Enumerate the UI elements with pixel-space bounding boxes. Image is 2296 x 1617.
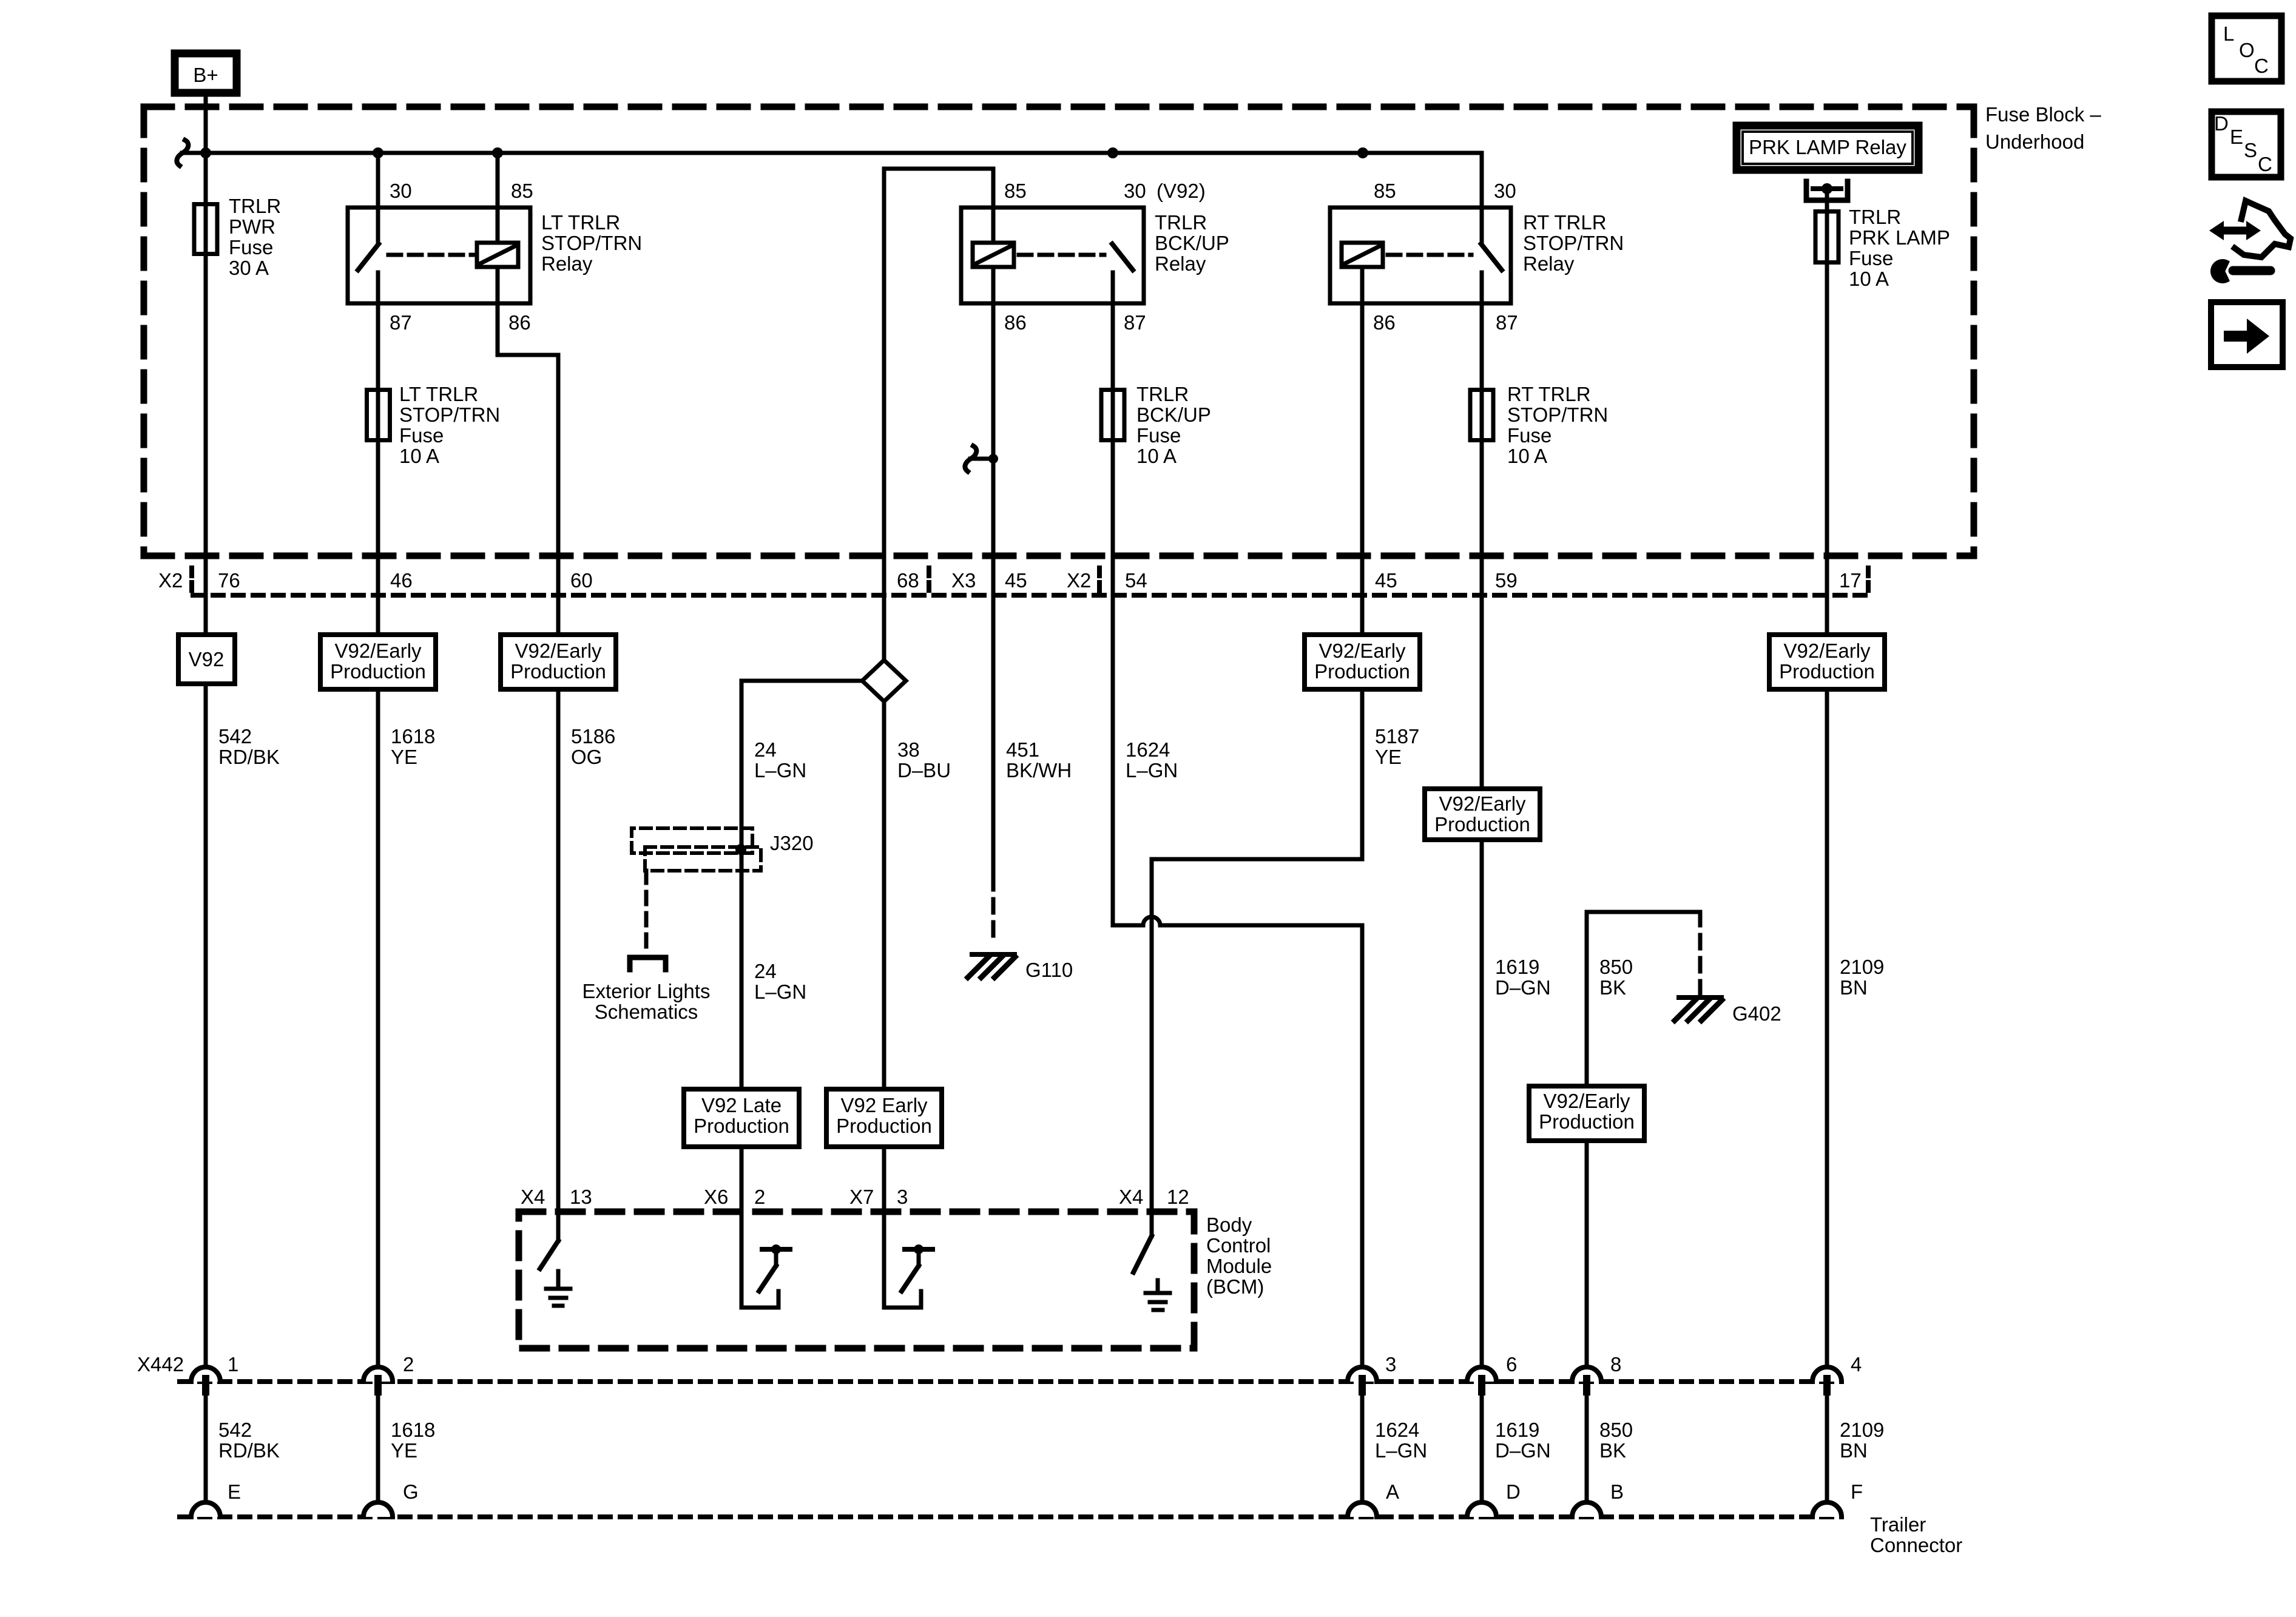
svg-text:D–GN: D–GN bbox=[1495, 1439, 1551, 1462]
svg-text:Production: Production bbox=[1779, 660, 1875, 683]
svg-text:1619: 1619 bbox=[1495, 1419, 1539, 1441]
svg-text:Production: Production bbox=[836, 1115, 932, 1137]
terminal X442-4 bbox=[1823, 1375, 1831, 1396]
svg-text:24: 24 bbox=[754, 960, 777, 982]
svg-text:1619: 1619 bbox=[1495, 956, 1539, 978]
svg-text:850: 850 bbox=[1599, 956, 1633, 978]
svg-text:TRLR: TRLR bbox=[1136, 383, 1189, 405]
svg-text:54: 54 bbox=[1125, 569, 1147, 592]
svg-text:D–BU: D–BU bbox=[897, 759, 951, 781]
svg-text:Body: Body bbox=[1206, 1214, 1252, 1236]
BCM ground X4-12 bbox=[1146, 1280, 1170, 1310]
wire 24 L-GN branch from splice to BCM X6-2 bbox=[741, 681, 862, 1308]
icon arrow box bbox=[2211, 302, 2283, 367]
wire relay3 pin87 down through RT TRLR fuse to trailer pin 6 bbox=[1480, 272, 1484, 1367]
svg-text:L–GN: L–GN bbox=[1375, 1439, 1427, 1462]
svg-text:TRLR: TRLR bbox=[229, 195, 281, 217]
svg-text:Fuse: Fuse bbox=[229, 236, 273, 258]
svg-text:8: 8 bbox=[1610, 1353, 1621, 1376]
svg-text:6: 6 bbox=[1506, 1353, 1517, 1376]
svg-text:C: C bbox=[2254, 55, 2269, 77]
svg-text:RT TRLR: RT TRLR bbox=[1507, 383, 1591, 405]
svg-text:Production: Production bbox=[694, 1115, 789, 1137]
relay K2 coil link dashed bbox=[1019, 253, 1104, 257]
BCM dashed box bbox=[519, 1212, 1194, 1348]
svg-text:85: 85 bbox=[1374, 180, 1396, 202]
svg-text:X442: X442 bbox=[137, 1353, 184, 1376]
connector arc X442-2 bbox=[363, 1367, 393, 1382]
svg-text:86: 86 bbox=[1373, 311, 1396, 334]
svg-text:D–GN: D–GN bbox=[1495, 976, 1551, 999]
relay K2 coil feed stub bbox=[991, 208, 996, 243]
BCM switch X6-2 bbox=[741, 1291, 778, 1308]
dashed wire 850 BK to G402 bbox=[1698, 912, 1703, 998]
svg-text:1618: 1618 bbox=[391, 725, 435, 748]
svg-text:Relay: Relay bbox=[541, 252, 593, 275]
fuse LT TRLR STOP/TRN 10A bbox=[367, 390, 390, 441]
node dot take-out on 451 BK/WH bbox=[988, 454, 998, 464]
connector separator right end bbox=[1866, 568, 1871, 597]
svg-text:L–GN: L–GN bbox=[754, 981, 806, 1003]
svg-text:LT TRLR: LT TRLR bbox=[541, 211, 620, 234]
option box V92 Early Production bbox=[826, 1089, 942, 1147]
svg-text:10 A: 10 A bbox=[399, 445, 439, 467]
fuse TRLR PRK LAMP 10A bbox=[1815, 212, 1838, 263]
svg-text:S: S bbox=[2244, 139, 2257, 161]
dashed wire 451 BK/WH to G110 bbox=[991, 876, 996, 937]
wire 1624 L-GN jog right with hop over 5187 bbox=[1113, 917, 1362, 1367]
wire relay3 pin30 from bus bbox=[1480, 153, 1484, 243]
option box V92/Early Production (5186 OG) bbox=[501, 635, 616, 689]
svg-text:TRLR: TRLR bbox=[1849, 206, 1901, 228]
svg-text:B+: B+ bbox=[193, 64, 218, 86]
svg-text:(V92): (V92) bbox=[1156, 180, 1206, 202]
svg-text:Trailer: Trailer bbox=[1870, 1513, 1926, 1536]
svg-text:STOP/TRN: STOP/TRN bbox=[399, 403, 500, 426]
fuse TRLR PWR 30A bbox=[194, 204, 217, 254]
wire 5186 OG column to BCM X4-13 bbox=[556, 355, 561, 1241]
svg-text:10 A: 10 A bbox=[1136, 445, 1177, 467]
svg-text:87: 87 bbox=[1124, 311, 1146, 334]
connector arc X442-6 bbox=[1467, 1367, 1496, 1382]
svg-text:RD/BK: RD/BK bbox=[218, 746, 280, 768]
svg-text:3: 3 bbox=[897, 1186, 908, 1208]
svg-text:3: 3 bbox=[1385, 1353, 1396, 1376]
bus wire B+ horizontal bbox=[182, 151, 1482, 155]
svg-text:Relay: Relay bbox=[1523, 252, 1575, 275]
trailer connector arc E bbox=[191, 1502, 220, 1517]
svg-text:J320: J320 bbox=[770, 832, 814, 854]
svg-text:Production: Production bbox=[510, 660, 606, 683]
svg-text:4: 4 bbox=[1851, 1353, 1862, 1376]
take-out stub on 451 BK/WH bbox=[970, 457, 993, 461]
svg-text:BN: BN bbox=[1840, 1439, 1868, 1462]
off-page fork exterior lights bbox=[630, 957, 666, 970]
relay K1 LT TRLR STOP/TRN box bbox=[348, 208, 530, 303]
wire TRLR PRK LAMP fuse feed bbox=[1825, 191, 1829, 1367]
svg-text:5187: 5187 bbox=[1375, 725, 1419, 748]
icon LOC box bbox=[2212, 16, 2281, 81]
node dot bus/relay1 pin85 bbox=[492, 147, 503, 158]
wire relay2 pin87 down through TRLR BCK/UP fuse to connector 54 bbox=[1111, 272, 1115, 925]
svg-text:V92/Early: V92/Early bbox=[1783, 640, 1871, 662]
terminal X442-6 bbox=[1478, 1375, 1485, 1396]
svg-text:B: B bbox=[1610, 1480, 1624, 1503]
connector separator X3 bbox=[927, 568, 931, 597]
svg-text:G: G bbox=[403, 1480, 419, 1503]
wire 5187 YE jog left to BCM X4-12 bbox=[1152, 859, 1362, 1236]
svg-text:Control: Control bbox=[1206, 1234, 1271, 1257]
option box V92 bbox=[178, 635, 235, 684]
svg-text:1618: 1618 bbox=[391, 1419, 435, 1441]
svg-text:BK/WH: BK/WH bbox=[1006, 759, 1072, 781]
BCM ground X4-13 bbox=[546, 1271, 570, 1306]
svg-text:X2: X2 bbox=[1067, 569, 1091, 592]
squiggle at bus start bbox=[177, 140, 188, 166]
relay K1 switch arm bbox=[358, 244, 379, 270]
connector arc X442-8 bbox=[1572, 1367, 1601, 1382]
option box V92/Early Production (1618 YE) bbox=[320, 635, 436, 689]
relay K3 switch arm bbox=[1481, 244, 1502, 270]
option box V92/Early Production (1619 D-GN) bbox=[1425, 789, 1540, 840]
wire 850 BK to trailer B bbox=[1585, 1396, 1589, 1504]
svg-text:X4: X4 bbox=[521, 1186, 545, 1208]
trailer connector arc D bbox=[1467, 1502, 1496, 1517]
fuse block - underhood dashed border bbox=[144, 107, 1974, 556]
svg-text:1: 1 bbox=[228, 1353, 238, 1376]
svg-text:2: 2 bbox=[754, 1186, 765, 1208]
svg-text:LT TRLR: LT TRLR bbox=[399, 383, 478, 405]
svg-text:86: 86 bbox=[508, 311, 531, 334]
terminal X442-8 bbox=[1583, 1375, 1590, 1396]
trailer connector arc A bbox=[1348, 1502, 1377, 1517]
relay K2 switch arm bbox=[1112, 244, 1133, 270]
svg-text:Schematics: Schematics bbox=[595, 1001, 698, 1023]
svg-text:V92/Early: V92/Early bbox=[1319, 640, 1406, 662]
svg-text:30: 30 bbox=[1124, 180, 1146, 202]
svg-text:PRK LAMP Relay: PRK LAMP Relay bbox=[1749, 136, 1906, 158]
wire relay1 pin87 down through LT TRLR fuse to connector 46 and X442-2 bbox=[376, 272, 380, 1367]
svg-text:Module: Module bbox=[1206, 1255, 1272, 1277]
svg-text:Underhood: Underhood bbox=[1985, 130, 2084, 153]
svg-text:Production: Production bbox=[330, 660, 426, 683]
BCM switch X7-3 bbox=[884, 1291, 921, 1308]
svg-text:Connector: Connector bbox=[1870, 1534, 1962, 1556]
svg-text:30 A: 30 A bbox=[229, 257, 269, 279]
icon DESC box bbox=[2212, 112, 2281, 177]
svg-text:V92 Early: V92 Early bbox=[840, 1094, 928, 1116]
svg-text:Relay: Relay bbox=[1155, 252, 1206, 275]
wire 850 BK column to trailer pin 8 bbox=[1587, 912, 1700, 1367]
svg-text:Fuse: Fuse bbox=[1849, 247, 1893, 269]
svg-text:V92/Early: V92/Early bbox=[1439, 792, 1526, 815]
relay K1 coil bbox=[477, 243, 518, 267]
svg-text:BK: BK bbox=[1599, 1439, 1626, 1462]
svg-text:60: 60 bbox=[570, 569, 593, 592]
svg-text:Fuse Block –: Fuse Block – bbox=[1985, 103, 2101, 126]
dashed wire J320 to exterior lights bbox=[644, 871, 649, 953]
svg-text:V92/Early: V92/Early bbox=[1543, 1090, 1630, 1112]
terminal X442-3 bbox=[1359, 1375, 1366, 1396]
svg-text:C: C bbox=[2258, 153, 2272, 175]
svg-text:451: 451 bbox=[1006, 738, 1039, 761]
svg-text:OG: OG bbox=[571, 746, 602, 768]
junction block J320 dashed boxes bbox=[632, 828, 752, 853]
wire 38 D-BU column above splice to relay2 pin85 bridge bbox=[884, 169, 993, 660]
svg-text:85: 85 bbox=[1004, 180, 1027, 202]
svg-text:G402: G402 bbox=[1732, 1002, 1781, 1025]
svg-text:E: E bbox=[228, 1480, 241, 1503]
svg-text:(BCM): (BCM) bbox=[1206, 1275, 1264, 1298]
wire 1618 YE to trailer G bbox=[376, 1396, 380, 1504]
wire 1624 L-GN to trailer A bbox=[1360, 1396, 1365, 1504]
svg-text:24: 24 bbox=[754, 738, 777, 761]
trailer connector dotted line bbox=[180, 1514, 1842, 1519]
svg-text:L–GN: L–GN bbox=[1126, 759, 1178, 781]
svg-text:86: 86 bbox=[1004, 311, 1027, 334]
svg-text:Production: Production bbox=[1539, 1110, 1635, 1133]
wire 38 D-BU column below splice to BCM X7-3 bbox=[882, 701, 886, 1308]
svg-text:5186: 5186 bbox=[571, 725, 615, 748]
svg-text:87: 87 bbox=[390, 311, 412, 334]
svg-text:12: 12 bbox=[1167, 1186, 1189, 1208]
svg-text:45: 45 bbox=[1375, 569, 1397, 592]
svg-text:PRK LAMP: PRK LAMP bbox=[1849, 226, 1950, 249]
svg-text:V92/Early: V92/Early bbox=[515, 640, 602, 662]
svg-text:BN: BN bbox=[1840, 976, 1868, 999]
option box V92/Early Production (5187 YE) bbox=[1305, 635, 1420, 689]
svg-text:G110: G110 bbox=[1025, 959, 1073, 981]
svg-text:68: 68 bbox=[897, 569, 919, 592]
svg-text:X6: X6 bbox=[704, 1186, 728, 1208]
relay K2 coil bbox=[973, 243, 1014, 267]
svg-text:YE: YE bbox=[1375, 746, 1402, 768]
svg-text:850: 850 bbox=[1599, 1419, 1633, 1441]
svg-text:542: 542 bbox=[218, 725, 252, 748]
svg-text:30: 30 bbox=[1494, 180, 1516, 202]
svg-text:Production: Production bbox=[1434, 813, 1530, 836]
svg-text:BCK/UP: BCK/UP bbox=[1136, 403, 1211, 426]
svg-text:Fuse: Fuse bbox=[399, 424, 444, 447]
squiggle at take-out bbox=[965, 446, 976, 471]
connector separator X2 left bbox=[189, 568, 194, 597]
svg-text:Fuse: Fuse bbox=[1507, 424, 1551, 447]
icon wrench and arrow bbox=[2219, 227, 2251, 235]
svg-text:D: D bbox=[2214, 112, 2229, 135]
connector arc X442-3 bbox=[1348, 1367, 1377, 1382]
connector arc X442-1 bbox=[191, 1367, 220, 1382]
node dot bus/relay2 pin30 bbox=[1107, 147, 1118, 158]
wire 542 RD/BK to trailer E bbox=[204, 1396, 208, 1504]
svg-text:E: E bbox=[2230, 126, 2243, 148]
svg-text:RD/BK: RD/BK bbox=[218, 1439, 280, 1462]
trailer connector arc F bbox=[1812, 1502, 1842, 1517]
svg-text:X3: X3 bbox=[951, 569, 976, 592]
svg-text:87: 87 bbox=[1496, 311, 1518, 334]
svg-text:F: F bbox=[1851, 1480, 1863, 1503]
wire 2109 BN to trailer F bbox=[1825, 1396, 1829, 1504]
relay K2 TRLR BCK/UP box bbox=[961, 208, 1144, 303]
relay K1 coil link dashed bbox=[388, 253, 477, 257]
svg-text:V92: V92 bbox=[189, 648, 225, 670]
relay K3 RT TRLR STOP/TRN box bbox=[1330, 208, 1511, 303]
svg-text:V92/Early: V92/Early bbox=[334, 640, 422, 662]
B+ feed wire bbox=[204, 96, 208, 1367]
svg-text:STOP/TRN: STOP/TRN bbox=[541, 232, 642, 254]
fuse RT TRLR STOP/TRN 10A bbox=[1470, 390, 1493, 441]
svg-text:17: 17 bbox=[1839, 569, 1862, 592]
svg-text:YE: YE bbox=[391, 746, 417, 768]
svg-text:BCK/UP: BCK/UP bbox=[1155, 232, 1229, 254]
connector row dotted line (fuse block outputs) bbox=[193, 593, 1868, 598]
option box V92/Early Production (2109 BN) bbox=[1769, 635, 1885, 689]
trailer harness connector X442 dotted line bbox=[180, 1379, 1842, 1384]
svg-text:STOP/TRN: STOP/TRN bbox=[1507, 403, 1608, 426]
svg-text:TRLR: TRLR bbox=[1155, 211, 1207, 234]
trailer connector arc B bbox=[1572, 1502, 1601, 1517]
svg-text:X7: X7 bbox=[849, 1186, 874, 1208]
svg-text:59: 59 bbox=[1495, 569, 1518, 592]
wire relay3 pin86 down 5187 YE bbox=[1360, 267, 1365, 859]
ground G402 bbox=[1679, 995, 1721, 1000]
relay K3 coil link dashed bbox=[1388, 253, 1471, 257]
svg-text:542: 542 bbox=[218, 1419, 252, 1441]
svg-text:45: 45 bbox=[1005, 569, 1027, 592]
option box V92/Early Production (850 BK) bbox=[1529, 1086, 1644, 1141]
node dot bus/relay3 pin85 bbox=[1357, 147, 1368, 158]
svg-text:10 A: 10 A bbox=[1849, 268, 1889, 290]
PRK LAMP relay terminal bracket bbox=[1806, 181, 1848, 200]
BCM switch X4-13 arm bbox=[540, 1241, 558, 1269]
ground G110 bbox=[972, 952, 1015, 957]
svg-text:Exterior Lights: Exterior Lights bbox=[582, 980, 711, 1002]
svg-text:PWR: PWR bbox=[229, 215, 275, 238]
B+ terminal box bbox=[175, 53, 237, 93]
svg-text:38: 38 bbox=[897, 738, 920, 761]
BCM switch X4-12 arm bbox=[1133, 1236, 1152, 1272]
node dot bus/B+ bbox=[200, 147, 211, 158]
wire relay1 pin85 from bus bbox=[496, 153, 500, 243]
svg-text:A: A bbox=[1386, 1480, 1399, 1503]
node dot PRK LAMP relay output bbox=[1822, 183, 1832, 194]
PRK LAMP Relay label box bbox=[1737, 126, 1919, 170]
wire 1619 D-GN to trailer D bbox=[1480, 1396, 1484, 1504]
svg-text:Fuse: Fuse bbox=[1136, 424, 1181, 447]
relay K3 coil bbox=[1342, 243, 1383, 267]
PRK LAMP relay terminal T-bar bbox=[1813, 186, 1841, 191]
svg-text:13: 13 bbox=[570, 1186, 592, 1208]
svg-text:1624: 1624 bbox=[1126, 738, 1170, 761]
svg-text:X4: X4 bbox=[1119, 1186, 1143, 1208]
svg-text:2109: 2109 bbox=[1840, 956, 1884, 978]
connector separator X2 right bbox=[1097, 568, 1102, 597]
connector arc X442-4 bbox=[1812, 1367, 1842, 1382]
svg-text:L–GN: L–GN bbox=[754, 759, 806, 781]
svg-text:L: L bbox=[2223, 22, 2234, 45]
svg-text:Production: Production bbox=[1314, 660, 1410, 683]
svg-text:YE: YE bbox=[391, 1439, 417, 1462]
svg-text:10 A: 10 A bbox=[1507, 445, 1547, 467]
svg-text:BK: BK bbox=[1599, 976, 1626, 999]
wire relay1 pin30 from bus bbox=[376, 153, 380, 243]
terminal X442-2 bbox=[374, 1375, 382, 1396]
node dot bus/relay1 pin30 bbox=[373, 147, 383, 158]
svg-text:30: 30 bbox=[390, 180, 412, 202]
svg-text:85: 85 bbox=[511, 180, 533, 202]
splice diamond S (38 D-BU / 24 L-GN) bbox=[862, 660, 906, 701]
wire relay2 pin86 down 451 BK/WH bbox=[991, 267, 996, 876]
option box V92 Late Production bbox=[684, 1089, 799, 1147]
fuse TRLR BCK/UP 10A bbox=[1101, 390, 1124, 441]
svg-text:RT TRLR: RT TRLR bbox=[1523, 211, 1607, 234]
svg-text:76: 76 bbox=[218, 569, 240, 592]
svg-text:2109: 2109 bbox=[1840, 1419, 1884, 1441]
svg-text:O: O bbox=[2239, 39, 2255, 61]
node dot J320 bbox=[735, 844, 746, 855]
terminal X442-1 bbox=[202, 1375, 209, 1396]
svg-text:V92 Late: V92 Late bbox=[701, 1094, 782, 1116]
svg-text:46: 46 bbox=[390, 569, 413, 592]
trailer connector arc G bbox=[363, 1502, 393, 1517]
svg-text:X2: X2 bbox=[158, 569, 183, 592]
svg-text:D: D bbox=[1506, 1480, 1521, 1503]
svg-text:STOP/TRN: STOP/TRN bbox=[1523, 232, 1624, 254]
svg-text:1624: 1624 bbox=[1375, 1419, 1419, 1441]
svg-text:2: 2 bbox=[403, 1353, 414, 1376]
wire relay1 pin86 with jog right bbox=[498, 267, 558, 355]
